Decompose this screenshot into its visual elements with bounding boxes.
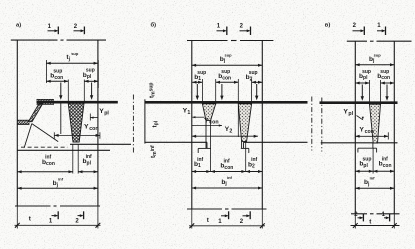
fig v dimension t and marks (354, 214, 356, 229)
fig a dimension t and marks (16, 206, 18, 229)
fig v dimension b_j^sup (355, 64, 394, 66)
fig v key (stippled) (370, 104, 381, 143)
fig a dimension t_j^sup (45, 60, 47, 83)
fig v top chord line (347, 40, 367, 42)
fig b edges (191, 41, 193, 210)
fig b slab top line (145, 101, 308, 104)
fig b top chord line (187, 40, 228, 42)
fig a right edge (97, 40, 99, 206)
fig v dimensions b_pl^sup, b_con^sup (355, 82, 369, 84)
fig b dimension b_j^sup (192, 64, 262, 66)
fig a slab bottom lines (70, 143, 131, 145)
fig a slab top line (37, 101, 118, 104)
fig v slab bottom and joint notch (321, 142, 373, 144)
fig a top chord line (11, 39, 58, 41)
fig a hidden edge (21, 146, 68, 148)
fig a extension lines (67, 80, 69, 104)
fig b dimension t and marks (191, 209, 193, 229)
fig b load arrows (196, 84, 198, 97)
fig a load arrows (60, 83, 62, 97)
fig a keyed joint (cross-hatched) (68, 103, 84, 142)
fig a sloped mortar band (28, 104, 42, 122)
fig a mortar bed hatch (37, 99, 55, 104)
fig b dimensions b_1^sup, b_con^sup, b_2^sup (192, 81, 202, 83)
fig a dimensions b_con^sup, b_pl^sup (46, 80, 68, 82)
fig b slab bottom and joint notch (145, 141, 207, 143)
fig a lower mortar bed (17, 120, 29, 124)
fig b left key (stippled) (202, 104, 215, 121)
rotated labels t_m^sup, t_pl, t_m^inf (148, 83, 156, 98)
fig a bottom chord line (15, 205, 51, 207)
break lines between b) and v) (311, 97, 313, 151)
fig b slab break edge (144, 99, 146, 143)
fig v slab top line (320, 101, 398, 104)
break line between a) and b) (132, 95, 134, 153)
fig v bottom chord line (351, 213, 367, 215)
fig v edges (354, 41, 356, 214)
fig a left edge (16, 40, 18, 206)
fig a corbel slopes (24, 124, 32, 148)
fig b right key (stippled) (238, 104, 251, 142)
fig b bottom chord line (187, 208, 222, 210)
fig v load arrows (361, 85, 363, 98)
